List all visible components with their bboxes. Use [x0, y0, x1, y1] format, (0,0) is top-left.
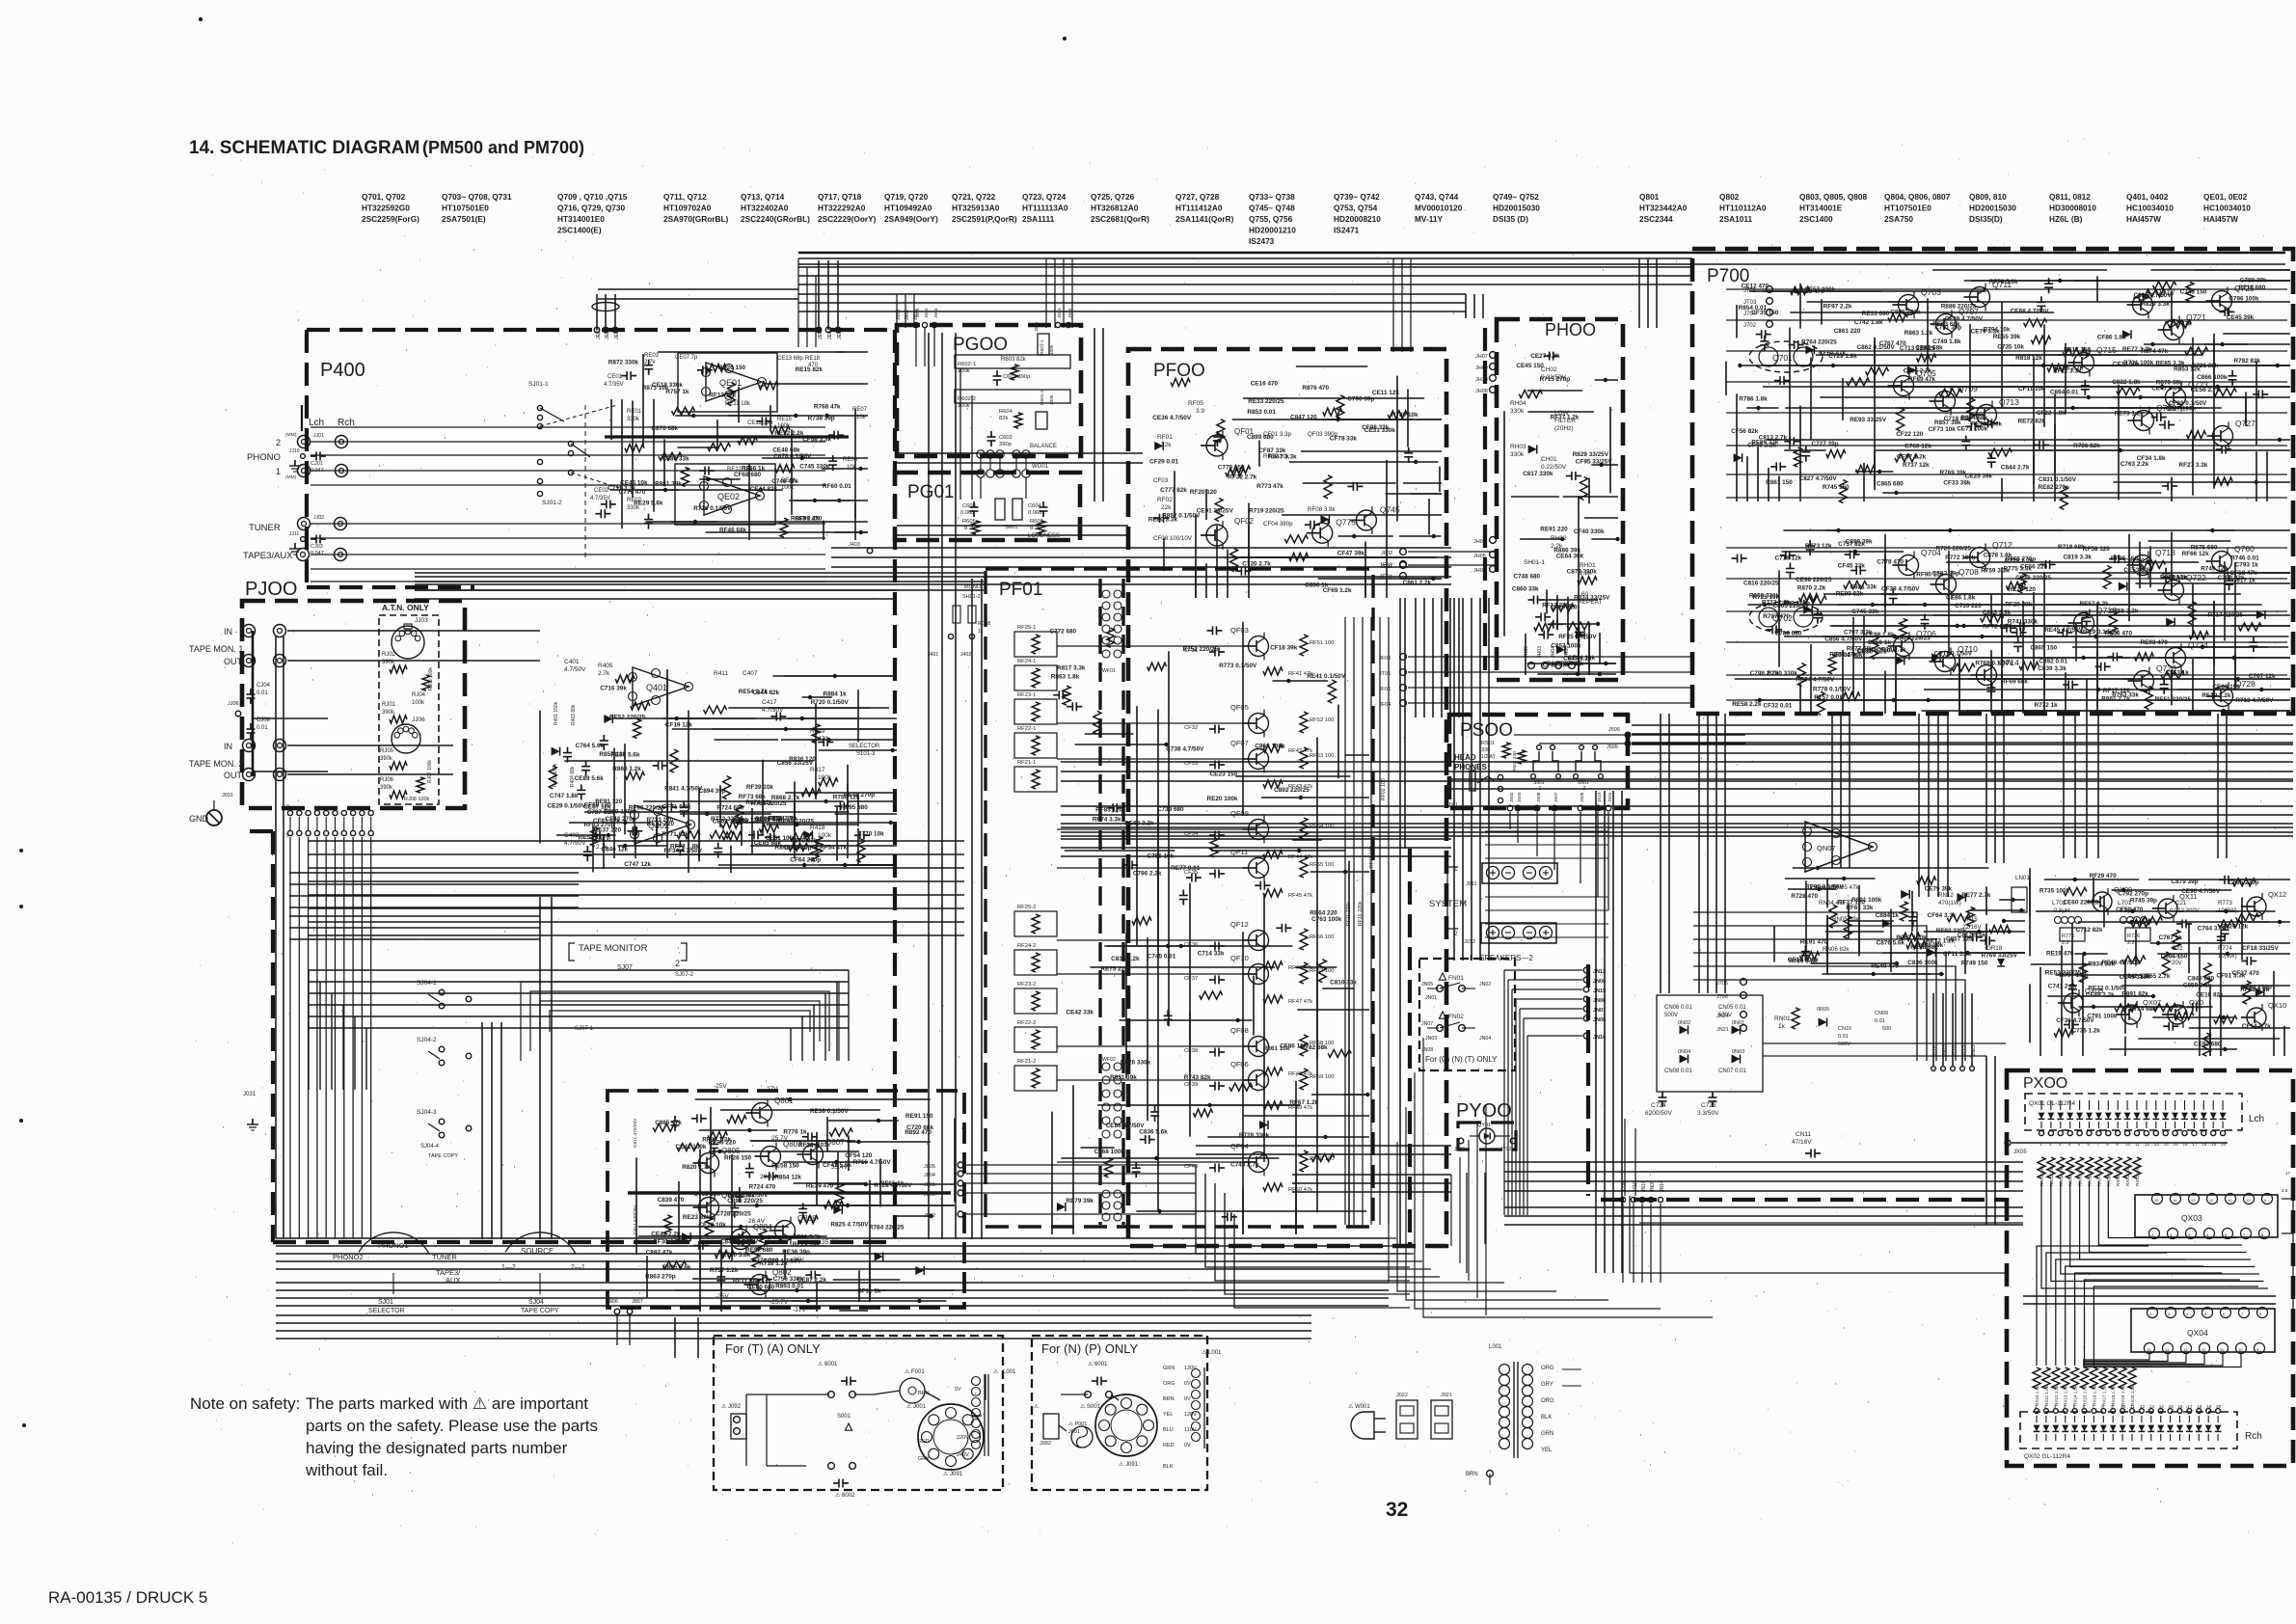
svg-text:RF72 220: RF72 220 [1983, 623, 2011, 630]
svg-text:IN ·: IN · [224, 627, 238, 636]
svg-text:RF52 100: RF52 100 [1310, 717, 1334, 723]
svg-text:RF89 33k: RF89 33k [1751, 440, 1779, 447]
svg-text:RF18 470: RF18 470 [1797, 288, 1825, 295]
svg-text:Q760: Q760 [2234, 544, 2255, 554]
svg-text:C604: C604 [1028, 503, 1042, 509]
svg-text:J031: J031 [222, 793, 233, 798]
svg-text:R405: R405 [598, 663, 613, 669]
svg-text:C847 120: C847 120 [1290, 415, 1317, 421]
svg-text:RE77 2.7k: RE77 2.7k [1961, 892, 1991, 899]
svg-text:S101-3: S101-3 [856, 751, 876, 757]
svg-text:RX17 1.5k: RX17 1.5k [2101, 1385, 2106, 1406]
svg-text:RX12 1.5k: RX12 1.5k [2054, 1385, 2059, 1406]
svg-text:For (T) (A) ONLY: For (T) (A) ONLY [725, 1341, 821, 1356]
svg-text:26.4V: 26.4V [748, 1218, 766, 1225]
svg-text:R778 0.1/50V: R778 0.1/50V [1813, 687, 1851, 693]
svg-text:HAI457W: HAI457W [2126, 214, 2161, 224]
svg-text:QX05: QX05 [2085, 987, 2103, 995]
svg-text:2SA970(GRorBL): 2SA970(GRorBL) [663, 214, 729, 224]
svg-text:Q711, Q712: Q711, Q712 [663, 192, 707, 202]
svg-text:SJ04-3: SJ04-3 [417, 1109, 437, 1116]
svg-text:C714 33k: C714 33k [1198, 950, 1225, 957]
svg-text:CF18 39k: CF18 39k [1270, 645, 1298, 652]
svg-text:QX03: QX03 [2181, 1213, 2202, 1223]
svg-text:47/16V: 47/16V [1792, 1139, 1812, 1146]
svg-text:0V: 0V [955, 1387, 961, 1393]
svg-text:Q723, Q724: Q723, Q724 [1022, 192, 1067, 202]
svg-text:Q708: Q708 [1958, 567, 1979, 577]
svg-text:RED: RED [1163, 1443, 1175, 1448]
svg-text:18: 18 [2197, 1404, 2202, 1409]
svg-text:0.047: 0.047 [311, 551, 324, 556]
svg-text:QF11: QF11 [1230, 848, 1248, 856]
svg-text:CE60 220/25: CE60 220/25 [2063, 900, 2099, 907]
svg-text:100k: 100k [781, 485, 795, 491]
svg-text:CF47 39k: CF47 39k [1337, 550, 1365, 556]
svg-text:C816 220/25: C816 220/25 [1743, 581, 1779, 587]
svg-text:C777 82k: C777 82k [1160, 487, 1187, 494]
svg-text:C796 100k: C796 100k [2228, 296, 2259, 303]
svg-text:2SA1141(QorR): 2SA1141(QorR) [1175, 214, 1234, 224]
svg-text:Q802: Q802 [1719, 192, 1740, 202]
svg-text:2.7k: 2.7k [596, 844, 608, 851]
svg-text:60: 60 [1581, 591, 1589, 598]
svg-text:0V: 0V [1184, 1381, 1191, 1387]
svg-text:Q809, 810: Q809, 810 [1969, 192, 2007, 202]
svg-text:C885 330k: C885 330k [1890, 310, 1921, 316]
svg-text:RX19 1.5k: RX19 1.5k [2120, 1385, 2125, 1406]
svg-text:J502: J502 [1509, 792, 1515, 802]
svg-text:C778 470: C778 470 [1877, 559, 1904, 566]
svg-text:Q703: Q703 [1921, 287, 1941, 297]
svg-text:13: 13 [2149, 1404, 2155, 1409]
svg-text:L001: L001 [1489, 1344, 1502, 1350]
svg-text:SJ04: SJ04 [528, 1299, 544, 1306]
svg-text:R881 39k: R881 39k [655, 481, 682, 488]
svg-text:QE01, 0E02: QE01, 0E02 [2203, 192, 2248, 202]
svg-text:BALANCE: BALANCE [1030, 444, 1057, 449]
svg-text:Q745: Q745 [1380, 505, 1400, 515]
svg-text:RX13 1.5k: RX13 1.5k [2064, 1385, 2068, 1406]
svg-text:R749 120: R749 120 [2201, 566, 2228, 573]
svg-text:CE56 2.7k: CE56 2.7k [2191, 387, 2221, 393]
svg-text:CE53 10k: CE53 10k [2123, 567, 2151, 574]
svg-text:CH02: CH02 [1541, 366, 1557, 373]
svg-text:RF74 3.3k: RF74 3.3k [1093, 817, 1121, 824]
svg-text:RJ02: RJ02 [382, 652, 396, 658]
svg-text:RED: RED [918, 1439, 930, 1445]
svg-text:2: 2 [675, 959, 680, 968]
svg-text:C747 12k: C747 12k [624, 861, 651, 868]
svg-text:C719 82k: C719 82k [1944, 416, 1971, 422]
svg-text:J012: J012 [1464, 939, 1475, 945]
svg-text:JJ06: JJ06 [228, 701, 239, 707]
svg-text:PGOO: PGOO [953, 335, 1008, 355]
svg-text:C720 68k: C720 68k [906, 1124, 933, 1131]
svg-text:C719 12k: C719 12k [1775, 555, 1802, 561]
svg-text:CF11 1k: CF11 1k [857, 1288, 881, 1295]
svg-text:J801: J801 [924, 1182, 935, 1188]
svg-text:HT109492A0: HT109492A0 [884, 203, 932, 213]
svg-text:GRN: GRN [1163, 1366, 1175, 1371]
svg-text:CE97 1.2k: CE97 1.2k [1897, 453, 1927, 460]
svg-text:Q745~ Q748: Q745~ Q748 [1249, 203, 1295, 213]
svg-text:RE08: RE08 [843, 457, 858, 463]
svg-text:C894 39p: C894 39p [699, 788, 726, 795]
svg-text:R419: R419 [810, 728, 825, 735]
svg-text:R406: R406 [596, 836, 611, 843]
svg-text:120V: 120V [1184, 1366, 1197, 1371]
svg-text:R719 68k: R719 68k [2058, 544, 2085, 551]
svg-text:J402: J402 [960, 652, 971, 658]
svg-text:C745 33k: C745 33k [1851, 609, 1878, 615]
svg-text:Q713, Q714: Q713, Q714 [741, 192, 785, 202]
svg-text:-25V: -25V [716, 1293, 729, 1300]
svg-text:IN: IN [224, 742, 232, 751]
svg-text:12: 12 [2201, 1347, 2206, 1352]
svg-text:RJ04: RJ04 [412, 692, 426, 698]
svg-text:J503: J503 [1517, 792, 1523, 802]
svg-text:⚠ 6001: ⚠ 6001 [1088, 1361, 1108, 1367]
svg-text:SJ04-1: SJ04-1 [417, 980, 437, 987]
svg-text:0.01: 0.01 [1838, 1034, 1849, 1040]
svg-text:C866 100k: C866 100k [1255, 744, 1285, 750]
svg-text:R876 470: R876 470 [1302, 385, 1329, 392]
svg-text:R718 680: R718 680 [2239, 284, 2266, 291]
svg-text:OUT: OUT [224, 657, 243, 666]
svg-text:R418: R418 [810, 825, 825, 831]
svg-text:RE85 3.3k: RE85 3.3k [2155, 361, 2185, 367]
svg-text:RE15: RE15 [777, 417, 793, 422]
svg-text:2SC2229(OorY): 2SC2229(OorY) [818, 214, 877, 224]
svg-text:HD20001210: HD20001210 [1249, 226, 1296, 235]
svg-text:R772 1k: R772 1k [2035, 702, 2059, 709]
svg-text:⚠ J001: ⚠ J001 [906, 1403, 927, 1410]
svg-text:J031: J031 [243, 1092, 257, 1097]
svg-text:CF11 3.3k: CF11 3.3k [1943, 951, 1972, 958]
svg-text:C402: C402 [564, 832, 580, 839]
svg-text:RF45 47k: RF45 47k [1288, 893, 1312, 899]
svg-text:3.9: 3.9 [1196, 408, 1204, 415]
svg-text:CF36: CF36 [1184, 942, 1198, 948]
svg-text:CE45 39k: CE45 39k [2227, 314, 2255, 321]
svg-text:RE91 470: RE91 470 [1800, 939, 1828, 946]
svg-text:C865 150: C865 150 [2030, 645, 2057, 652]
svg-text:C763 100k: C763 100k [1311, 916, 1342, 923]
svg-text:RE19 470: RE19 470 [2046, 950, 2074, 957]
svg-text:CE11 12k: CE11 12k [1372, 390, 1400, 396]
svg-text:RE96 220: RE96 220 [709, 1140, 737, 1147]
svg-text:Q725, Q726: Q725, Q726 [1091, 192, 1135, 202]
svg-text:RE20 100k: RE20 100k [1207, 796, 1238, 802]
svg-text:CE98 1.8k: CE98 1.8k [1865, 632, 1895, 638]
svg-text:390k: 390k [382, 710, 395, 716]
svg-text:JH09: JH09 [1475, 365, 1488, 371]
svg-text:JN08: JN08 [1593, 1017, 1606, 1023]
svg-text:R720 220/25: R720 220/25 [1936, 546, 1972, 553]
svg-text:R870 68k: R870 68k [2156, 379, 2183, 386]
svg-text:RE37 220: RE37 220 [594, 827, 622, 834]
svg-text:CE64 39k: CE64 39k [1556, 554, 1584, 560]
svg-text:C860 33k: C860 33k [1512, 586, 1539, 593]
svg-text:14. SCHEMATIC DIAGRAM: 14. SCHEMATIC DIAGRAM [189, 138, 419, 158]
svg-text:JH10: JH10 [1475, 377, 1488, 383]
svg-text:J807: J807 [632, 1299, 643, 1305]
svg-text:3.3/50V: 3.3/50V [1697, 1110, 1719, 1117]
svg-text:RF59 100: RF59 100 [1310, 1074, 1334, 1080]
svg-text:SJ04-2: SJ04-2 [417, 1037, 437, 1043]
svg-text:C793 1k: C793 1k [2235, 561, 2259, 568]
svg-text:0R05: 0R05 [1817, 1007, 1829, 1013]
svg-text:S001: S001 [837, 1414, 851, 1420]
svg-text:PFOO: PFOO [1153, 361, 1205, 381]
svg-text:CE52 4.7/50V: CE52 4.7/50V [763, 1259, 802, 1265]
svg-text:Q775: Q775 [1336, 518, 1356, 528]
svg-text:CF36 220/25: CF36 220/25 [2015, 575, 2051, 582]
svg-text:120V: 120V [1184, 1412, 1197, 1418]
svg-text:RE26 150: RE26 150 [718, 365, 746, 371]
svg-text:RF24-2: RF24-2 [1017, 943, 1036, 949]
svg-text:J022: J022 [1396, 1393, 1408, 1398]
svg-text:RE33 220/25: RE33 220/25 [1248, 398, 1284, 405]
svg-text:RE23 82k: RE23 82k [683, 1214, 711, 1221]
svg-text:C870 68k: C870 68k [651, 425, 678, 432]
svg-text:RN05 39k: RN05 39k [1832, 916, 1859, 923]
svg-text:C830 4.7/50V: C830 4.7/50V [1857, 648, 1896, 655]
svg-text:BLK: BLK [1541, 1415, 1552, 1421]
svg-text:JT05: JT05 [1379, 671, 1391, 677]
svg-text:R743 82k: R743 82k [1184, 1074, 1211, 1081]
svg-text:RE16: RE16 [781, 478, 797, 484]
svg-text:RX18 1.5k: RX18 1.5k [2111, 1385, 2116, 1406]
svg-text:CF01 3.3p: CF01 3.3p [1263, 431, 1291, 438]
svg-text:JJ06: JJ06 [412, 717, 425, 723]
svg-text:CF22 120: CF22 120 [1896, 431, 1924, 438]
svg-text:2.7k: 2.7k [598, 670, 610, 677]
svg-text:HT314001E: HT314001E [1799, 203, 1843, 213]
svg-text:CN05 0.01: CN05 0.01 [1718, 1005, 1746, 1011]
svg-text:R863 270p: R863 270p [645, 1274, 676, 1281]
svg-text:JT03: JT03 [1743, 300, 1757, 306]
svg-text:C787 68k: C787 68k [587, 809, 614, 816]
svg-text:SJ01: SJ01 [378, 1299, 393, 1306]
svg-text:PYOO: PYOO [1456, 1100, 1512, 1122]
svg-text:JN04: JN04 [1479, 1036, 1491, 1042]
svg-text:JN03: JN03 [1425, 1036, 1437, 1042]
svg-text:QY01: QY01 [1477, 1123, 1491, 1128]
svg-text:C878 0.1/50V: C878 0.1/50V [773, 453, 812, 460]
svg-text:PSOO: PSOO [1460, 720, 1513, 741]
svg-text:-25V: -25V [714, 1083, 727, 1090]
svg-text:CE42 2.2k: CE42 2.2k [651, 1231, 681, 1237]
svg-text:RS01: RS01 [1481, 741, 1495, 746]
svg-text:2SC2591(P,QorR): 2SC2591(P,QorR) [952, 214, 1017, 224]
svg-text:QF05: QF05 [1230, 703, 1249, 712]
svg-text:YEL: YEL [1163, 1412, 1173, 1418]
svg-text:RF27 3.3k: RF27 3.3k [2179, 462, 2208, 469]
svg-text:JY02: JY02 [1500, 1147, 1512, 1152]
svg-text:Q402: Q402 [648, 821, 669, 830]
svg-text:J509: J509 [1580, 792, 1585, 802]
svg-text:RX01 1.5k: RX01 1.5k [2125, 1165, 2130, 1186]
svg-text:SJ01-1: SJ01-1 [528, 381, 549, 388]
svg-text:CE86 1.8k: CE86 1.8k [1946, 595, 1976, 602]
svg-text:ORG: ORG [1541, 1398, 1554, 1404]
svg-text:12: 12 [2209, 1198, 2214, 1203]
svg-text:2SC2259(ForG): 2SC2259(ForG) [362, 214, 419, 224]
svg-text:RE77 3.3k: RE77 3.3k [2122, 346, 2152, 353]
svg-text:TAPE COPY: TAPE COPY [521, 1308, 559, 1314]
svg-text:1—2: 1—2 [501, 1264, 516, 1271]
svg-text:C849 4.7/50V: C849 4.7/50V [720, 1239, 759, 1246]
svg-text:RF29 39k: RF29 39k [2005, 601, 2033, 608]
svg-text:JJ01: JJ01 [313, 433, 324, 439]
svg-text:CF37 470: CF37 470 [2232, 970, 2260, 977]
svg-text:C859 3.3k: C859 3.3k [2183, 983, 2212, 989]
svg-text:CF38: CF38 [1184, 1048, 1198, 1054]
svg-text:⚠ 6001: ⚠ 6001 [818, 1361, 838, 1367]
svg-text:R752 220/25: R752 220/25 [1183, 646, 1219, 653]
svg-text:RF44 47k: RF44 47k [1288, 854, 1312, 860]
svg-text:TAPE MON. 2: TAPE MON. 2 [189, 759, 243, 769]
svg-text:R604: R604 [999, 409, 1013, 415]
svg-text:GRY: GRY [1541, 1382, 1553, 1388]
svg-text:QF07: QF07 [1230, 739, 1249, 747]
svg-text:0V: 0V [1184, 1443, 1191, 1448]
svg-text:R768 220/25: R768 220/25 [751, 800, 787, 807]
svg-text:1: 1 [276, 467, 281, 476]
svg-text:C721 33k: C721 33k [2192, 363, 2219, 369]
svg-text:CE19 330k: CE19 330k [1788, 957, 1819, 963]
svg-text:RE54 2.7k: RE54 2.7k [739, 689, 769, 695]
svg-text:C764 5.6k: C764 5.6k [576, 743, 605, 749]
svg-text:CE01: CE01 [608, 374, 623, 380]
svg-text:CN09: CN09 [1875, 1011, 1888, 1016]
svg-text:RF60 0.01: RF60 0.01 [823, 483, 851, 490]
svg-text:J506: J506 [1608, 727, 1620, 733]
svg-text:Q749~ Q752: Q749~ Q752 [1493, 192, 1539, 202]
svg-text:RF55 100: RF55 100 [1310, 862, 1334, 868]
svg-text:QF09: QF09 [1230, 809, 1249, 818]
svg-text:330k: 330k [627, 505, 640, 511]
svg-text:RF29 0.1/50V: RF29 0.1/50V [2081, 629, 2120, 636]
svg-text:R782 82k: R782 82k [2234, 358, 2261, 365]
svg-text:CN06 0.01: CN06 0.01 [1664, 1005, 1692, 1011]
svg-text:J119: J119 [1932, 1045, 1938, 1056]
svg-text:RF25 4.7/50V: RF25 4.7/50V [1558, 634, 1597, 640]
svg-text:CF08 100/10V: CF08 100/10V [1153, 535, 1193, 542]
svg-text:Q721, Q722: Q721, Q722 [952, 192, 996, 202]
svg-text:CF18 33/25V: CF18 33/25V [2242, 945, 2279, 952]
svg-text:2SA7501(E): 2SA7501(E) [442, 214, 486, 224]
svg-text:2SC2240(GRorBL): 2SC2240(GRorBL) [741, 214, 810, 224]
svg-text:C745 0.01: C745 0.01 [1148, 953, 1176, 960]
svg-text:The parts marked with ⚠ are im: The parts marked with ⚠ are important [306, 1394, 588, 1413]
svg-text:RN01: RN01 [1774, 1015, 1791, 1022]
svg-text:C862 0.1/50V: C862 0.1/50V [1857, 344, 1896, 351]
svg-text:C863 1k: C863 1k [2166, 669, 2190, 676]
svg-text:SJ07-1: SJ07-1 [575, 1026, 594, 1032]
svg-text:QF08: QF08 [1230, 1026, 1249, 1035]
svg-text:22k: 22k [1161, 442, 1172, 448]
svg-text:RE11 18k: RE11 18k [725, 401, 751, 407]
svg-text:C835 270p: C835 270p [2228, 880, 2259, 886]
svg-text:RF13 12k: RF13 12k [709, 392, 737, 398]
svg-text:HD30008010: HD30008010 [2049, 203, 2096, 213]
svg-text:RX10 1.5k: RX10 1.5k [2035, 1385, 2039, 1406]
svg-text:2SA1011: 2SA1011 [1719, 214, 1753, 224]
svg-text:RF13 270p: RF13 270p [1542, 603, 1573, 609]
svg-text:RF21-2: RF21-2 [1017, 1059, 1036, 1065]
svg-text:CE80 680: CE80 680 [747, 1285, 775, 1291]
svg-text:JE02: JE02 [596, 328, 602, 339]
svg-text:C407: C407 [743, 670, 758, 677]
svg-text:CF86 1.8k: CF86 1.8k [2097, 335, 2126, 341]
svg-text:GRY: GRY [918, 1456, 930, 1462]
svg-text:R417: R417 [810, 767, 825, 773]
svg-text:RE46 4.7/50V: RE46 4.7/50V [2102, 960, 2142, 966]
svg-text:C602: C602 [999, 435, 1013, 441]
svg-text:RE53 220/25: RE53 220/25 [2045, 969, 2082, 976]
svg-text:R773 0.1/50V: R773 0.1/50V [1219, 663, 1257, 669]
svg-text:PJOO: PJOO [245, 579, 297, 600]
svg-text:RF67 1.2k: RF67 1.2k [1289, 1099, 1318, 1106]
svg-text:2.2k: 2.2k [1580, 570, 1592, 577]
svg-text:JH07: JH07 [1475, 354, 1488, 360]
svg-text:RE93 470: RE93 470 [2141, 639, 2169, 646]
svg-text:RF53 100: RF53 100 [1310, 753, 1334, 759]
svg-text:QX07: QX07 [2143, 998, 2161, 1007]
svg-text:CE11 0.1/50V: CE11 0.1/50V [1934, 651, 1973, 658]
svg-text:MV00010120: MV00010120 [1415, 203, 1463, 213]
svg-text:C724: C724 [1651, 1102, 1666, 1109]
svg-text:4.7/50V: 4.7/50V [564, 666, 586, 673]
svg-text:SJ07-2: SJ07-2 [675, 972, 694, 978]
svg-text:12: 12 [2140, 1404, 2146, 1409]
svg-text:10: 10 [2246, 1198, 2251, 1203]
svg-text:PG01: PG01 [907, 482, 955, 502]
svg-text:RJ08 100k: RJ08 100k [404, 797, 430, 802]
svg-text:C763 39k: C763 39k [693, 1191, 720, 1198]
svg-text:RF07 10k: RF07 10k [1263, 453, 1290, 460]
svg-text:RF01: RF01 [1157, 434, 1173, 441]
svg-text:WF01: WF01 [1102, 668, 1116, 674]
svg-text:390p: 390p [999, 442, 1012, 447]
svg-text:C417: C417 [762, 699, 777, 706]
svg-text:C728 220/25: C728 220/25 [716, 1210, 751, 1217]
svg-text:14: 14 [2159, 1404, 2165, 1409]
svg-text:RE58 150: RE58 150 [771, 1163, 799, 1170]
svg-text:330k: 330k [1510, 451, 1525, 458]
svg-text:RF66 12k: RF66 12k [2182, 551, 2210, 557]
svg-text:RF56 100: RF56 100 [1310, 934, 1334, 940]
svg-text:C865 47k: C865 47k [655, 1120, 682, 1126]
svg-text:Q716, Q729, Q730: Q716, Q729, Q730 [557, 203, 625, 213]
svg-text:Q701, Q702: Q701, Q702 [362, 192, 406, 202]
svg-text:TUNER: TUNER [249, 523, 281, 533]
svg-text:IS2473: IS2473 [1249, 236, 1275, 246]
svg-text:HT322402A0: HT322402A0 [741, 203, 789, 213]
svg-text:RH02: RH02 [1551, 535, 1567, 542]
svg-text:13: 13 [2191, 1198, 2196, 1203]
svg-text:J605: J605 [896, 310, 902, 320]
svg-text:RJ07 100k: RJ07 100k [427, 760, 433, 783]
svg-text:4.7/35V: 4.7/35V [604, 382, 624, 388]
svg-text:JH08: JH08 [1475, 389, 1488, 394]
svg-text:C789 39k: C789 39k [2240, 278, 2267, 284]
svg-text:R728 470: R728 470 [1791, 893, 1818, 900]
svg-text:HEAD: HEAD [1454, 753, 1476, 762]
